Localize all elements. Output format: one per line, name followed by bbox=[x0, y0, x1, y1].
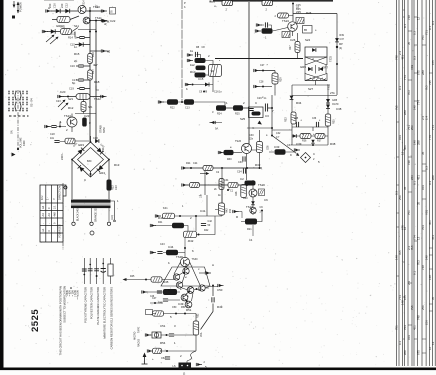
terminal fm row2 bbox=[102, 19, 108, 22]
junction am if a bbox=[190, 167, 192, 169]
wire pot down bbox=[274, 84, 276, 96]
diode in det bbox=[312, 48, 316, 52]
svg-text:C13: C13 bbox=[115, 185, 118, 190]
det verticals bbox=[305, 65, 326, 74]
capacitor C17 bbox=[78, 79, 83, 81]
detector coil bowtie bbox=[305, 74, 327, 81]
svg-text:R21: R21 bbox=[247, 228, 252, 231]
junction os4 bbox=[196, 288, 198, 290]
svg-text:R16: R16 bbox=[91, 52, 95, 57]
vertical ts24 collector bbox=[292, 3, 294, 21]
det box bottom bbox=[292, 127, 328, 145]
svg-text:R33: R33 bbox=[285, 117, 288, 122]
wire drv out bbox=[197, 216, 216, 235]
vertical rail x270 bbox=[271, 95, 273, 136]
bridge dot left bbox=[71, 159, 73, 161]
svg-text:9.1: 9.1 bbox=[428, 26, 432, 30]
capacitor C50b bbox=[212, 297, 214, 302]
speaker transformer box bbox=[179, 363, 192, 369]
transistor TS21 bbox=[250, 207, 256, 213]
wire c8 bbox=[197, 55, 201, 59]
svg-text:250: 250 bbox=[102, 147, 105, 152]
capacitor C16 bbox=[78, 65, 83, 67]
svg-text:R15: R15 bbox=[74, 52, 80, 56]
rail x253 bbox=[252, 180, 254, 215]
svg-text:GR3: GR3 bbox=[78, 143, 84, 147]
if can S21 bbox=[81, 102, 86, 112]
resistor R25 box bbox=[233, 105, 243, 111]
terminal o1 bbox=[142, 290, 148, 293]
mains terminal a bbox=[72, 222, 75, 225]
diode top right bbox=[335, 38, 339, 42]
wire mix a bbox=[261, 24, 264, 26]
svg-text:-: - bbox=[54, 231, 57, 232]
out wire y272 bbox=[199, 272, 205, 274]
resistor R37 box bbox=[315, 133, 325, 138]
svg-text:TS20: TS20 bbox=[258, 183, 265, 187]
svg-text:C23: C23 bbox=[84, 114, 90, 118]
mains terminal c bbox=[107, 222, 110, 225]
resistor R17 bbox=[88, 70, 93, 80]
wire r27h bbox=[289, 15, 294, 17]
wire agc2 bbox=[259, 86, 273, 88]
junction x222 bbox=[221, 209, 223, 211]
svg-text:S24: S24 bbox=[305, 38, 311, 42]
svg-text:THIS CIRCUIT HAS BEEN DRAWN WI: THIS CIRCUIT HAS BEEN DRAWN WITH POSITIO… bbox=[59, 286, 63, 355]
svg-text:C2: C2 bbox=[240, 177, 244, 181]
svg-text:POLYSTYRENE CAPACITOR: POLYSTYRENE CAPACITOR bbox=[84, 287, 88, 323]
svg-text:TS26: TS26 bbox=[235, 140, 242, 143]
svg-text:774: 774 bbox=[417, 100, 421, 105]
junction agc bbox=[262, 70, 264, 72]
terminal v1 bbox=[151, 312, 157, 315]
svg-text:GR5: GR5 bbox=[332, 99, 338, 102]
junction os3 bbox=[186, 300, 188, 302]
service-table tiny figures bbox=[395, 10, 435, 355]
transistor TS13 bbox=[67, 117, 77, 127]
svg-text:S1- S4: S1- S4 bbox=[30, 98, 34, 107]
svg-text:22n: 22n bbox=[249, 138, 254, 141]
transistor TS33 bbox=[176, 282, 182, 288]
svg-text:P: P bbox=[184, 1, 186, 5]
jack element R53 bbox=[152, 332, 161, 338]
svg-text:GR7: GR7 bbox=[322, 66, 328, 70]
svg-text:R54: R54 bbox=[160, 341, 166, 345]
terminal osc c bbox=[185, 83, 191, 86]
junction r40b bbox=[195, 215, 197, 217]
svg-text:0.3: 0.3 bbox=[428, 181, 432, 185]
resistor R13 bbox=[107, 180, 112, 191]
svg-text:C4: C4 bbox=[249, 238, 253, 242]
driver to splitter wires bbox=[174, 262, 200, 285]
svg-text:451: 451 bbox=[431, 235, 435, 240]
junction drv bbox=[198, 234, 200, 236]
svg-text:C3: C3 bbox=[265, 114, 269, 118]
svg-text:27k: 27k bbox=[330, 91, 335, 95]
svg-text:C39: C39 bbox=[296, 142, 302, 146]
junction x270b bbox=[271, 127, 273, 129]
svg-text:MICRO: MICRO bbox=[134, 332, 137, 340]
bridge left leg bbox=[71, 160, 73, 200]
svg-text:07: 07 bbox=[296, 6, 300, 10]
transistor TS35 bbox=[181, 294, 188, 301]
svg-text:2.4: 2.4 bbox=[398, 51, 402, 55]
capacitor C24 bbox=[265, 22, 267, 27]
resistor R28 vert bbox=[241, 185, 247, 198]
svg-text:A: A bbox=[212, 263, 214, 267]
svg-text:S27: S27 bbox=[308, 87, 314, 91]
wire am to bus bbox=[78, 29, 96, 31]
wire tape bbox=[214, 122, 222, 124]
svg-text:B30: B30 bbox=[87, 160, 92, 163]
terminal am if a bbox=[182, 166, 188, 169]
svg-text:R14: R14 bbox=[68, 36, 73, 40]
svg-text:451: 451 bbox=[428, 220, 432, 225]
terminal osc b bbox=[187, 59, 193, 62]
terminal mix a bbox=[256, 23, 262, 26]
wire c19 bbox=[77, 88, 90, 90]
svg-text:148: 148 bbox=[428, 275, 432, 280]
svg-text:* 250V: * 250V bbox=[66, 290, 69, 298]
resistor R27 vert bbox=[295, 42, 300, 53]
diode GR10 bbox=[56, 9, 60, 13]
junction o2 bbox=[154, 302, 156, 304]
svg-text:V01: V01 bbox=[398, 135, 402, 140]
svg-text:9.1: 9.1 bbox=[398, 86, 402, 90]
measure point 1 bbox=[336, 46, 338, 48]
transistor TS30 driver bbox=[180, 257, 189, 266]
svg-text:0.3: 0.3 bbox=[398, 341, 402, 345]
svg-text:TS12: TS12 bbox=[94, 97, 101, 101]
svg-text:R29: R29 bbox=[280, 77, 283, 82]
wire y130 bbox=[272, 129, 292, 131]
bridge diode GR1 bbox=[78, 148, 85, 155]
svg-text:TS13: TS13 bbox=[64, 114, 71, 118]
svg-text:R40: R40 bbox=[158, 216, 164, 220]
svg-text:V01: V01 bbox=[425, 209, 429, 215]
svg-text:C12: C12 bbox=[65, 3, 69, 8]
wire o2 bbox=[150, 302, 163, 304]
resistor R27b box bbox=[190, 182, 200, 187]
svg-text:V01: V01 bbox=[407, 335, 411, 340]
svg-text:R13: R13 bbox=[114, 163, 120, 167]
bridge rectifier GR1-GR4 diamond bbox=[72, 142, 109, 177]
wire row313 bbox=[153, 313, 197, 315]
svg-text:LS: LS bbox=[173, 365, 176, 368]
svg-text:TS25: TS25 bbox=[330, 55, 333, 62]
output stage interconnects bbox=[179, 272, 209, 302]
capacitor C8 bbox=[195, 52, 197, 57]
svg-text:(110): (110) bbox=[112, 215, 114, 220]
svg-text:e(: e( bbox=[107, 49, 110, 53]
diode GR5b bbox=[326, 99, 330, 103]
wire row168 bbox=[187, 167, 263, 169]
svg-text:751: 751 bbox=[425, 30, 429, 35]
long rail y58 bbox=[215, 58, 303, 60]
svg-text:A4: A4 bbox=[47, 213, 51, 217]
svg-text:1n: 1n bbox=[74, 45, 78, 49]
svg-text:S25: S25 bbox=[240, 117, 246, 121]
svg-text:703: 703 bbox=[407, 90, 411, 95]
svg-text:DIRECTION: DIRECTION bbox=[57, 186, 61, 200]
coil S10 box bbox=[61, 29, 72, 35]
wire row102 bbox=[163, 102, 225, 108]
svg-text:VOLTAGES: VOLTAGES bbox=[57, 224, 61, 238]
junction agc2 bbox=[262, 86, 264, 88]
svg-text:7k5: 7k5 bbox=[398, 250, 402, 255]
resistor R27h box bbox=[278, 13, 289, 18]
svg-text:451: 451 bbox=[403, 145, 407, 150]
terminal fm out2 bbox=[101, 19, 107, 22]
junction det mid bbox=[312, 144, 314, 146]
svg-text:748: 748 bbox=[417, 315, 421, 320]
diag arrowhead to diamond bbox=[296, 153, 299, 156]
primary tap wire c bbox=[108, 208, 110, 222]
svg-text:GR6: GR6 bbox=[300, 65, 306, 69]
svg-text:751: 751 bbox=[395, 325, 399, 330]
transistor TS14 bbox=[78, 6, 86, 14]
junction bus1 bbox=[89, 10, 91, 12]
resistor R23b box bbox=[262, 28, 273, 34]
svg-text:148: 148 bbox=[395, 255, 399, 260]
junction c x293 bbox=[292, 3, 294, 5]
terminal if in bbox=[45, 125, 51, 128]
capacitor C22 bbox=[54, 140, 59, 142]
power on/off arrows bbox=[13, 1, 20, 14]
svg-text:C37: C37 bbox=[340, 38, 345, 41]
rail x222 af bbox=[221, 197, 223, 216]
resistor R54 box bbox=[153, 348, 162, 354]
svg-text:2525: 2525 bbox=[30, 309, 41, 332]
rail x196 down bbox=[195, 216, 197, 231]
wire row84 bbox=[189, 84, 213, 86]
svg-text:S21: S21 bbox=[68, 97, 74, 101]
svg-text:S11: S11 bbox=[74, 24, 79, 28]
svg-text:GR4: GR4 bbox=[99, 171, 105, 175]
svg-text:MINIATURE ELECTROLYTIC CAPACIT: MINIATURE ELECTROLYTIC CAPACITOR bbox=[102, 287, 106, 339]
svg-text:9Λ: 9Λ bbox=[215, 127, 218, 131]
junction t1 bbox=[166, 350, 168, 352]
capacitor C31 bbox=[243, 156, 245, 161]
svg-text:288: 288 bbox=[421, 70, 425, 75]
junction row168 d bbox=[259, 167, 261, 169]
junction r21 bbox=[261, 210, 263, 212]
capacitor C42 bbox=[201, 223, 206, 225]
wire o1 bbox=[147, 291, 181, 293]
svg-text:703: 703 bbox=[403, 325, 407, 330]
svg-text:C10: C10 bbox=[53, 3, 57, 8]
svg-text:R36: R36 bbox=[302, 140, 307, 143]
svg-text:12: 12 bbox=[431, 341, 435, 345]
svg-text:= 6.3V: = 6.3V bbox=[74, 290, 77, 297]
resistor R44 box bbox=[166, 250, 178, 256]
top border faint segment bbox=[44, 0, 74, 2]
svg-text:CARBON RESISTOR E12 SERIES E6: CARBON RESISTOR E12 SERIES E6 RESISTORS bbox=[110, 287, 114, 350]
junction am2 bbox=[95, 31, 97, 33]
svg-text:C34: C34 bbox=[224, 179, 229, 182]
capacitor C36 bbox=[316, 122, 318, 127]
resistor R46 dark box bbox=[163, 289, 177, 295]
capacitor C51 bbox=[169, 334, 174, 336]
svg-text:C38: C38 bbox=[336, 107, 342, 111]
svg-text:TS10: TS10 bbox=[93, 5, 100, 9]
resistor R45 open box bbox=[151, 277, 162, 282]
svg-text:TS11: TS11 bbox=[95, 16, 102, 20]
wire gr13 bbox=[75, 44, 90, 46]
svg-text:451: 451 bbox=[401, 55, 405, 60]
vertical rail x249 bbox=[248, 2, 250, 145]
svg-text:12: 12 bbox=[428, 346, 432, 350]
det left rail bbox=[292, 96, 337, 146]
svg-text:R42: R42 bbox=[204, 229, 209, 232]
svg-text:9.1: 9.1 bbox=[413, 181, 417, 185]
wire L corner bbox=[96, 86, 99, 91]
capacitor C29 bbox=[265, 104, 267, 112]
wire spk curve bbox=[187, 351, 196, 363]
resistor R23 box bbox=[184, 99, 194, 105]
svg-text:150: 150 bbox=[229, 208, 232, 213]
transistor TS24 bbox=[288, 22, 298, 32]
capacitor in can bbox=[249, 109, 253, 111]
diode stab bbox=[95, 139, 99, 143]
svg-text:C26: C26 bbox=[290, 38, 296, 42]
wire r10 out bbox=[206, 74, 209, 76]
svg-text:256: 256 bbox=[425, 320, 429, 325]
switch linkage dash-dot line bbox=[17, 90, 19, 150]
mains dash-dot line bbox=[62, 183, 64, 250]
voltage table grid bbox=[40, 185, 63, 242]
diode GR8 bbox=[205, 83, 209, 87]
if transformer can bbox=[257, 142, 263, 153]
svg-text:R: R bbox=[89, 122, 91, 125]
svg-text:256: 256 bbox=[410, 175, 414, 180]
svg-text:7k5: 7k5 bbox=[428, 80, 432, 85]
junction r40 bbox=[179, 215, 181, 217]
wire y113 bbox=[75, 113, 96, 115]
det right rail bbox=[327, 85, 329, 145]
out wire y285 bbox=[205, 287, 218, 289]
svg-text:R18: R18 bbox=[94, 80, 100, 84]
table corner terminal bbox=[63, 187, 64, 189]
svg-text:C15: C15 bbox=[198, 77, 204, 81]
svg-text:12: 12 bbox=[401, 151, 405, 155]
capacitor C32 box bbox=[228, 182, 238, 187]
rail x205 long bbox=[204, 171, 206, 196]
terminal am if b bbox=[182, 183, 188, 186]
resistor R21 box bbox=[245, 219, 257, 225]
junction bridge bottom bbox=[90, 173, 92, 175]
svg-text:6p: 6p bbox=[72, 81, 76, 85]
svg-text:C: C bbox=[84, 178, 86, 182]
bottom black border line bbox=[0, 368, 436, 371]
terminal out right bbox=[218, 284, 224, 287]
svg-text:V01: V01 bbox=[421, 185, 425, 190]
svg-text:C23: C23 bbox=[56, 100, 61, 103]
svg-text:-: - bbox=[42, 223, 45, 224]
terminal if osc bbox=[58, 95, 64, 98]
wire ts26 out bbox=[252, 130, 260, 168]
junction row168 c bbox=[246, 167, 248, 169]
diode GR11 bbox=[65, 9, 69, 13]
junction up2 bbox=[232, 185, 234, 187]
svg-text:R26: R26 bbox=[306, 11, 312, 15]
wire if bus bbox=[225, 107, 272, 109]
diode det out bbox=[293, 134, 297, 138]
resistor R24 box bbox=[216, 105, 226, 111]
svg-text:288: 288 bbox=[403, 110, 407, 115]
wire rf row2 bbox=[52, 16, 102, 21]
resistor R31 box bbox=[275, 149, 286, 155]
wire aerial row bbox=[51, 10, 102, 12]
svg-text:0.3: 0.3 bbox=[395, 191, 399, 195]
svg-text:R30: R30 bbox=[227, 158, 232, 161]
svg-text:C46: C46 bbox=[150, 296, 155, 298]
svg-text:9.1: 9.1 bbox=[403, 24, 407, 28]
wire row216 bbox=[175, 215, 223, 217]
svg-text:0.3: 0.3 bbox=[413, 56, 417, 60]
capacitor C48 bbox=[163, 299, 168, 301]
svg-text:240V~: 240V~ bbox=[61, 152, 64, 160]
svg-text:C: C bbox=[255, 101, 257, 105]
svg-text:TS24: TS24 bbox=[282, 19, 289, 23]
secondary stub x110 bbox=[114, 207, 116, 220]
wire tap bbox=[90, 50, 101, 52]
svg-text:C51: C51 bbox=[160, 324, 166, 328]
bridge dot right bbox=[108, 159, 110, 161]
capacitor C46 bbox=[157, 291, 162, 293]
svg-text:OA79: OA79 bbox=[332, 103, 339, 106]
junction diag bbox=[271, 135, 273, 137]
svg-text:-: - bbox=[48, 223, 51, 224]
svg-text:R38: R38 bbox=[330, 142, 336, 146]
osc coil S9 box bbox=[209, 65, 222, 77]
svg-text:R27: R27 bbox=[289, 45, 292, 50]
resistor R8 box bbox=[195, 58, 206, 63]
wire to ts26 bbox=[234, 152, 243, 154]
junction y285 bbox=[212, 285, 214, 287]
hatch box below ts24 bbox=[282, 32, 290, 38]
driver coupling box bbox=[184, 231, 197, 238]
svg-text:774: 774 bbox=[398, 295, 402, 300]
svg-text:ON: ON bbox=[11, 130, 14, 134]
junction osc bbox=[192, 84, 194, 86]
svg-text:2.1: 2.1 bbox=[53, 205, 57, 209]
svg-text:RADIO: RADIO bbox=[138, 339, 141, 347]
svg-text:(S: (S bbox=[110, 10, 113, 14]
transistor TS31 bbox=[173, 274, 179, 280]
svg-text:148: 148 bbox=[425, 255, 429, 260]
terminal y272 bbox=[205, 271, 211, 274]
switch row dashes bbox=[9, 115, 29, 117]
svg-text:MP: MP bbox=[339, 43, 343, 46]
resistor R16 bbox=[88, 54, 93, 64]
svg-text:S26: S26 bbox=[267, 145, 270, 150]
svg-text:A4: A4 bbox=[41, 213, 45, 217]
junction c21 bbox=[59, 126, 61, 128]
svg-text:R24: R24 bbox=[217, 113, 222, 116]
capacitor C19 bbox=[79, 87, 84, 89]
transistor TS32 bbox=[183, 268, 189, 274]
svg-text:748: 748 bbox=[421, 265, 425, 270]
junction v3 bbox=[166, 334, 168, 336]
svg-text:VOL: VOL bbox=[200, 331, 203, 337]
junction r22 bbox=[181, 101, 183, 103]
svg-text:R51: R51 bbox=[186, 308, 192, 312]
svg-text:4k8: 4k8 bbox=[53, 212, 57, 217]
svg-text:220: 220 bbox=[60, 3, 64, 8]
wire row351 bbox=[152, 350, 196, 352]
junction row168 b bbox=[221, 167, 223, 169]
